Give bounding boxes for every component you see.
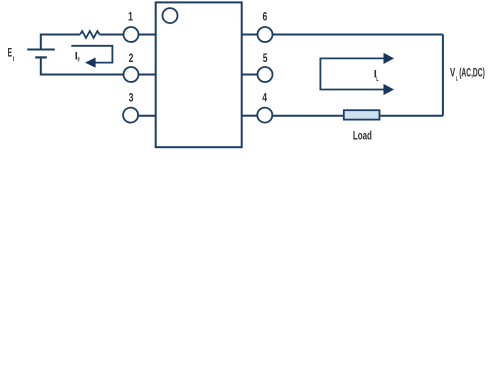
svg-text:4: 4 xyxy=(262,90,267,104)
wire: package to pin 4 xyxy=(242,115,258,117)
wire: pin 1 to package xyxy=(139,34,156,36)
package body U1 xyxy=(156,2,242,147)
IL top arrowhead xyxy=(384,53,395,64)
pin 5 circle xyxy=(258,67,273,82)
wire: pin 6 to right rail xyxy=(273,34,443,36)
load resistor rectangle xyxy=(344,110,380,119)
resistor R xyxy=(80,31,100,38)
svg-text:2: 2 xyxy=(129,51,134,65)
svg-text:I: I xyxy=(13,57,15,63)
IL current loop wire xyxy=(320,58,383,89)
wire: pin 4 to load xyxy=(272,115,344,117)
wire: battery top lead to resistor xyxy=(41,35,80,50)
pin 1 circle xyxy=(124,27,139,42)
pin 2 circle xyxy=(124,67,139,82)
svg-text:(AC,DC): (AC,DC) xyxy=(459,67,485,79)
wire: battery bottom lead to pin 2 xyxy=(41,57,124,74)
svg-text:L: L xyxy=(376,77,379,83)
pin 6 circle xyxy=(258,27,273,42)
wire: package to pin 5 xyxy=(242,74,258,76)
pin 3 circle xyxy=(123,108,138,123)
IF arrowhead xyxy=(85,58,96,68)
wire: pin 3 to package xyxy=(138,115,156,117)
wire: right rail vertical xyxy=(442,35,444,116)
svg-text:6: 6 xyxy=(263,10,268,24)
svg-text:E: E xyxy=(8,48,13,60)
svg-text:V: V xyxy=(450,67,455,79)
svg-text:F: F xyxy=(78,58,81,64)
wire: resistor to pin 1 xyxy=(100,34,124,36)
wire: load to right rail xyxy=(380,115,443,117)
svg-text:3: 3 xyxy=(129,90,134,104)
svg-text:Load: Load xyxy=(353,129,372,143)
battery E1 short plate xyxy=(35,56,47,58)
wire: package to pin 6 xyxy=(242,34,258,36)
IL bottom arrowhead xyxy=(384,84,395,95)
pin 4 circle xyxy=(257,108,272,123)
wire: pin 2 to package xyxy=(139,74,156,76)
svg-text:1: 1 xyxy=(128,10,133,24)
svg-text:5: 5 xyxy=(263,51,268,65)
svg-text:L: L xyxy=(456,76,458,82)
pin 1 orientation mark circle xyxy=(163,8,178,23)
IF current loop wire xyxy=(71,46,112,63)
battery E1 long plate xyxy=(27,49,55,51)
